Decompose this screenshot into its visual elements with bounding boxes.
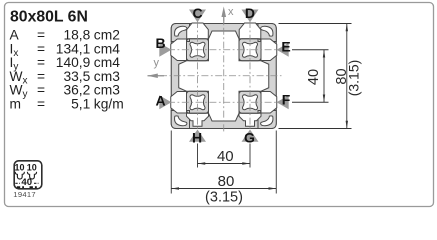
40 grid dimension dashes bbox=[15, 182, 38, 184]
corner slot BL bbox=[175, 116, 187, 126]
ext line top right bbox=[279, 23, 352, 25]
title 80x80L 6N bbox=[10, 9, 88, 26]
svg-text:H: H bbox=[192, 129, 202, 145]
svg-text:cm2: cm2 bbox=[94, 28, 120, 43]
svg-text:F: F bbox=[282, 92, 291, 108]
svg-text:10: 10 bbox=[27, 162, 37, 172]
chamber wall outlines bbox=[187, 39, 262, 114]
center cavity bbox=[179, 31, 269, 121]
T-slot cavity D (top right slot) bbox=[239, 23, 261, 39]
closed bottom cavity G bbox=[239, 113, 261, 126]
chamber screw hole BR bbox=[242, 95, 257, 110]
centerlines dash-dot bbox=[160, 14, 282, 133]
profile body silhouette bbox=[171, 24, 276, 129]
slot arrow E bbox=[277, 39, 291, 57]
dim text 40 bottom bbox=[217, 148, 234, 165]
corner slot BR bbox=[261, 116, 273, 126]
chamber screw hole TR bbox=[242, 42, 257, 57]
dim text (3.15) right bbox=[346, 60, 362, 97]
svg-text:G: G bbox=[244, 129, 255, 145]
ext line right bottom bbox=[275, 131, 277, 194]
svg-text:(3.15): (3.15) bbox=[205, 190, 243, 206]
svg-text:=: = bbox=[37, 69, 45, 84]
dim line 80 bottom bbox=[171, 188, 276, 190]
corner block TL bbox=[171, 24, 276, 129]
svg-text:80: 80 bbox=[218, 173, 235, 190]
slot centerline horizontal lower bbox=[168, 101, 281, 103]
svg-text:E: E bbox=[281, 39, 290, 55]
y axis arrow bbox=[147, 57, 164, 78]
property line Iy bbox=[10, 55, 121, 73]
slot arrow D bbox=[242, 5, 259, 23]
svg-text:=: = bbox=[37, 28, 45, 43]
groove/grid icon box bbox=[14, 161, 42, 189]
corner slot TR bbox=[261, 26, 273, 36]
groove glyph right bbox=[27, 172, 36, 179]
corner slot TL bbox=[175, 26, 187, 36]
dim line 80 right bbox=[346, 24, 348, 129]
x axis centerline bbox=[223, 14, 225, 133]
dimension arrowheads bbox=[171, 24, 348, 190]
groove glyph left bbox=[15, 172, 24, 179]
T-slot cavity E (right upper slot) bbox=[261, 39, 277, 61]
dim line 40 bottom bbox=[198, 163, 251, 165]
svg-text:80x80L 6N: 80x80L 6N bbox=[10, 9, 88, 26]
svg-text:C: C bbox=[193, 5, 203, 21]
closed bottom cavity H bbox=[187, 113, 209, 126]
x axis arrow bbox=[221, 6, 234, 24]
slot arrow F bbox=[277, 92, 291, 110]
svg-text:D: D bbox=[245, 5, 255, 21]
svg-text:(3.15): (3.15) bbox=[346, 60, 362, 97]
ext line G bottom bbox=[249, 144, 251, 168]
svg-text:=: = bbox=[37, 96, 45, 111]
T-slot cavity C (top left slot) bbox=[171, 23, 277, 126]
chamber screw hole BL bbox=[190, 95, 205, 110]
svg-text:18,8: 18,8 bbox=[63, 28, 90, 43]
svg-text:19417: 19417 bbox=[13, 190, 36, 199]
property line A bbox=[10, 28, 120, 43]
corner block BL bbox=[171, 111, 189, 129]
ext line bottom right bbox=[279, 128, 352, 130]
property line m bbox=[10, 96, 124, 111]
svg-text:40: 40 bbox=[217, 148, 234, 165]
svg-text:33,5: 33,5 bbox=[63, 69, 90, 84]
slot centerline vertical left bbox=[197, 21, 199, 131]
svg-text:cm3: cm3 bbox=[94, 69, 120, 84]
dim text 80 bottom bbox=[218, 173, 235, 190]
ext line E right bbox=[292, 49, 329, 51]
chamber screw hole TL bbox=[190, 42, 258, 110]
dim text 80 right bbox=[334, 68, 350, 84]
y axis centerline bbox=[160, 75, 282, 77]
dim text 40 right bbox=[306, 69, 322, 85]
property line Wx bbox=[10, 69, 121, 87]
slot arrow A bbox=[155, 93, 171, 110]
property line Ix bbox=[10, 41, 121, 59]
T-slot cavity F (right lower slot) bbox=[261, 91, 277, 113]
svg-text:5,1: 5,1 bbox=[71, 96, 90, 111]
slot arrow G bbox=[242, 129, 259, 145]
svg-text:x: x bbox=[228, 6, 234, 18]
svg-text:B: B bbox=[155, 35, 165, 51]
property line Wy bbox=[10, 83, 121, 101]
T-slot cavity A (left lower slot) bbox=[171, 91, 187, 113]
svg-text:40: 40 bbox=[306, 69, 322, 85]
svg-text:10: 10 bbox=[14, 162, 24, 172]
dim text (3.15) bottom bbox=[205, 190, 243, 206]
ext line H bottom bbox=[197, 144, 199, 168]
dim line 40 right bbox=[323, 50, 325, 103]
ext line left bottom bbox=[170, 131, 172, 194]
corner block BR bbox=[258, 111, 276, 129]
slot centerline vertical right bbox=[249, 21, 251, 131]
svg-text:kg/m: kg/m bbox=[94, 96, 124, 111]
svg-text:A: A bbox=[155, 93, 165, 109]
figure number 19417 bbox=[13, 190, 36, 199]
ext line F right bbox=[292, 101, 329, 103]
slot arrow H bbox=[189, 129, 206, 145]
svg-text:40: 40 bbox=[21, 177, 32, 188]
T-slot cavity B (left upper slot) bbox=[171, 39, 187, 61]
svg-text:y: y bbox=[154, 57, 160, 69]
slot arrow B bbox=[155, 35, 171, 57]
slot arrow C bbox=[189, 5, 206, 23]
svg-text:A: A bbox=[10, 28, 20, 43]
slot centerline horizontal upper bbox=[168, 49, 281, 51]
svg-text:m: m bbox=[10, 96, 22, 111]
corner block TR bbox=[258, 24, 276, 42]
